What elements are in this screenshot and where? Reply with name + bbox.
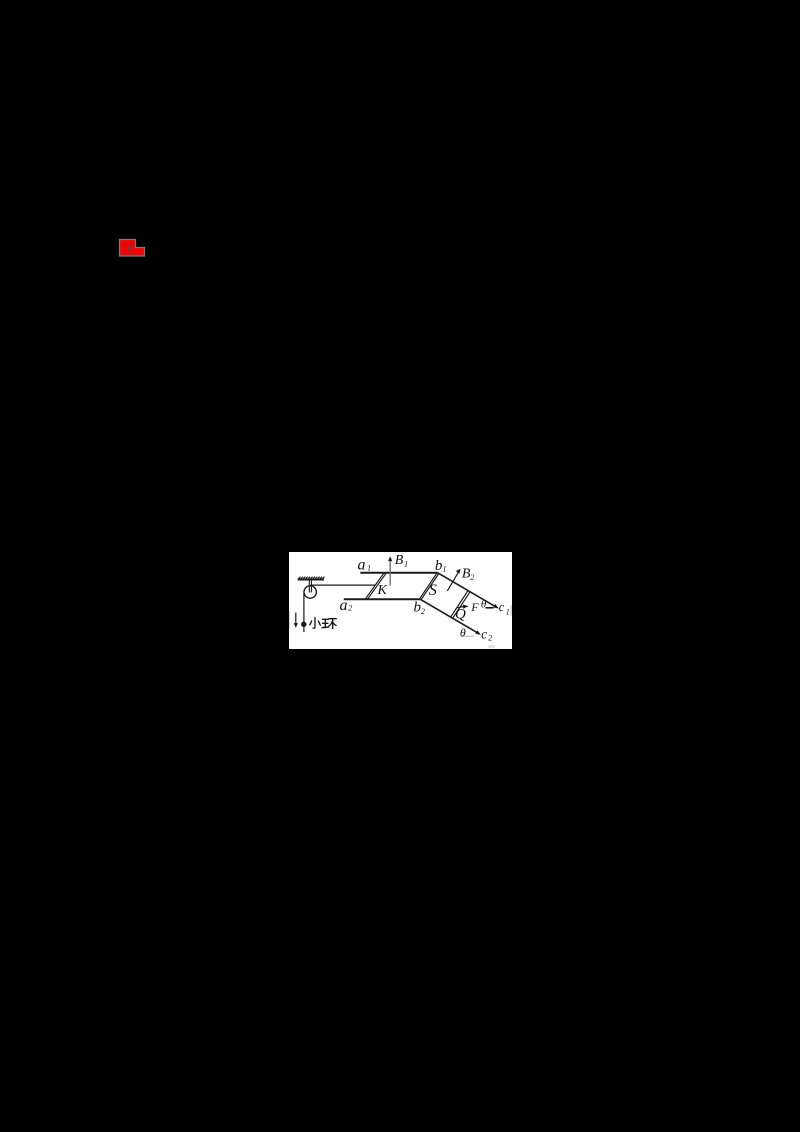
faint gray strip left edge bbox=[288, 611, 290, 629]
svg-text:1: 1 bbox=[505, 607, 509, 616]
svg-text:θ: θ bbox=[459, 625, 465, 639]
svg-text:2: 2 bbox=[348, 603, 352, 612]
string horizontal from pulley to bar K bbox=[310, 584, 375, 586]
pulley wheel bbox=[304, 585, 316, 597]
bar S (double line) bbox=[419, 572, 437, 599]
white diagram panel bbox=[289, 552, 512, 649]
bar Q (double line) bbox=[450, 591, 467, 617]
red step-shaped icon bbox=[120, 240, 145, 257]
ceiling line bbox=[297, 578, 323, 580]
string vertical from pulley down bbox=[302, 593, 304, 632]
incline top rail b1-c1 bbox=[437, 572, 496, 607]
svg-text:S: S bbox=[428, 582, 436, 599]
svg-text:a: a bbox=[357, 556, 365, 573]
watermark smudge right edge bbox=[510, 605, 512, 616]
svg-text:B: B bbox=[394, 553, 403, 568]
svg-text:Q: Q bbox=[455, 606, 466, 622]
char 小 bbox=[313, 617, 315, 628]
svg-text:F: F bbox=[470, 600, 479, 614]
arrow B1 bbox=[389, 559, 391, 586]
svg-text:1: 1 bbox=[442, 564, 446, 573]
svg-text:θ: θ bbox=[480, 598, 486, 610]
svg-text:2: 2 bbox=[470, 572, 474, 581]
char 环 bbox=[322, 618, 328, 620]
svg-text:1: 1 bbox=[404, 559, 408, 568]
dark check mark inside icon bbox=[128, 246, 132, 251]
text 小环 drawn as strokes bbox=[309, 617, 336, 628]
watermark smudge bottom right bbox=[488, 644, 495, 647]
svg-text:c: c bbox=[498, 600, 504, 614]
bottom rail a2 bbox=[343, 598, 420, 600]
svg-text:2: 2 bbox=[420, 606, 424, 615]
pulley support post (double line) bbox=[308, 579, 310, 592]
bar K (double line) bbox=[365, 572, 384, 599]
svg-text:a: a bbox=[339, 596, 347, 613]
ceiling hatching bbox=[298, 576, 324, 578]
arrow F bbox=[456, 606, 463, 607]
gravity down arrow bbox=[294, 612, 296, 624]
angle base line at c1 bbox=[485, 606, 493, 608]
svg-text:2: 2 bbox=[488, 633, 492, 642]
arrow B2 bbox=[447, 571, 459, 591]
angle base line at c2 (faint) bbox=[461, 635, 474, 637]
svg-text:K: K bbox=[376, 582, 387, 597]
small ring dot on string bbox=[301, 622, 305, 626]
svg-text:c: c bbox=[481, 626, 487, 641]
incline bottom rail b2-c2 bbox=[420, 599, 479, 633]
top rail a1 bbox=[360, 571, 437, 573]
svg-text:1: 1 bbox=[367, 563, 371, 572]
